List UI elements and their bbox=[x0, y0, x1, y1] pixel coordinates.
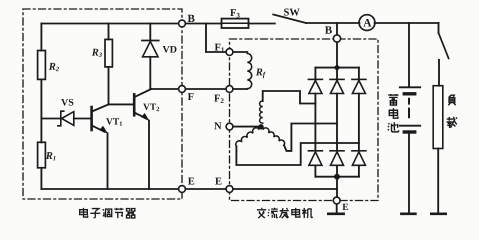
diode D4 bottom-left bbox=[308, 151, 322, 166]
label B (regulator B terminal) bbox=[188, 15, 195, 22]
wire: B drop to F1 bbox=[206, 24, 230, 53]
diode D3 top-right bbox=[352, 79, 366, 93]
wire: regulator top rail B bbox=[41, 23, 182, 25]
label VT2 (transistor designator) bbox=[143, 104, 150, 110]
label B (generator B terminal) bbox=[325, 26, 332, 33]
diode D1 top-left bbox=[308, 79, 322, 93]
star junction dot bbox=[258, 124, 263, 129]
generator dashed box bbox=[230, 39, 379, 201]
stator phase A coil (vertical) bbox=[260, 101, 263, 123]
label A (ammeter letter) bbox=[363, 19, 371, 27]
resistor R3 bbox=[105, 39, 112, 67]
wire: N lead bbox=[230, 126, 259, 128]
switch SW blade bbox=[273, 15, 306, 24]
node E generator left bbox=[226, 186, 233, 193]
label R2 (resistor designator) bbox=[49, 63, 56, 70]
label R1 (resistor designator) bbox=[46, 152, 53, 159]
node circles bbox=[179, 20, 341, 204]
wire: left column bottom bbox=[40, 168, 42, 189]
battery short plate 2 bbox=[404, 130, 414, 133]
wire: phase C to middle diode column bbox=[284, 124, 337, 151]
transistor VT2 bbox=[134, 89, 151, 189]
label N (neutral terminal) bbox=[214, 122, 221, 129]
label E (generator earth terminal) bbox=[215, 178, 221, 185]
label E (generator bottom earth) bbox=[342, 204, 348, 210]
label E (regulator earth terminal) bbox=[188, 178, 194, 185]
node N bbox=[226, 123, 233, 130]
battery BAT plates (long positive) bbox=[400, 86, 420, 88]
field winding Rf coil bbox=[247, 54, 251, 89]
diode VD bbox=[142, 40, 159, 42]
rectifier bottom bar bbox=[315, 176, 359, 178]
battery lead bbox=[408, 23, 410, 86]
fuse F3 bbox=[222, 19, 249, 28]
label Rf (field winding designator) bbox=[256, 69, 263, 76]
stator phase C coil (to lower-right) bbox=[263, 128, 284, 145]
diode D2 top-mid bbox=[330, 79, 344, 93]
label F1 (field terminal 1) bbox=[215, 44, 221, 51]
ammeter A bbox=[359, 15, 375, 31]
label: 负载 (vertical) bbox=[446, 95, 457, 128]
label VS (zener designator) bbox=[61, 99, 68, 106]
wire: rectifier to E node bbox=[336, 177, 338, 198]
wire: VS branch bbox=[41, 118, 90, 120]
regulator dashed box (dash-dot border) bbox=[23, 9, 182, 199]
battery short plate bbox=[404, 92, 414, 95]
ground at generator E bbox=[336, 204, 338, 214]
label: 交流发电机 bbox=[257, 208, 312, 218]
node F regulator bbox=[179, 86, 186, 93]
stator phase B coil (to lower-left) bbox=[236, 128, 259, 147]
wire: switch to ammeter bbox=[306, 22, 359, 24]
wire: left column upper (to R2) bbox=[40, 24, 42, 51]
wire: fuse to switch bbox=[249, 23, 275, 25]
rectifier top bar bbox=[315, 67, 359, 69]
diode D6 bottom-right bbox=[352, 151, 366, 166]
label R3 (resistor designator) bbox=[92, 49, 99, 56]
load switch bbox=[438, 23, 440, 33]
node E regulator bbox=[179, 186, 186, 193]
wire: VD bottom leg bbox=[149, 57, 151, 89]
ground at load bbox=[431, 213, 445, 216]
node F1 bbox=[226, 49, 233, 56]
node B generator bbox=[333, 35, 340, 42]
resistor R2 bbox=[38, 51, 46, 80]
wire: VT2 base rail bbox=[109, 103, 134, 105]
label SW (switch designator) bbox=[284, 9, 289, 16]
diode D5 bottom-mid bbox=[330, 151, 344, 166]
resistor R1 bbox=[38, 142, 46, 168]
wire: bottom E rail bbox=[41, 188, 337, 190]
ground at battery bbox=[401, 213, 415, 216]
wire: ammeter to right bbox=[375, 22, 439, 24]
rectifier column legs bbox=[314, 68, 316, 177]
wire: load to ground bbox=[437, 149, 439, 214]
label F2 (field terminal 2) bbox=[214, 95, 220, 102]
wire: phase A to left diode column bbox=[263, 91, 316, 104]
label: 电子调节器 bbox=[80, 208, 135, 218]
wire: F rail regulator bbox=[150, 88, 247, 90]
wire: VD top leg bbox=[149, 24, 151, 40]
transistor VT1 bbox=[92, 104, 109, 189]
wire: left column mid bbox=[40, 79, 42, 142]
label: 蓄电池 (vertical) bbox=[388, 94, 399, 132]
zener diode VS bbox=[58, 111, 64, 126]
node E generator bottom bbox=[333, 197, 340, 204]
battery long plate 2 bbox=[400, 125, 420, 127]
wire: generator B lead bbox=[336, 23, 338, 68]
label F3 (fuse designator) bbox=[230, 9, 236, 16]
wire: battery to ground bbox=[408, 134, 410, 213]
node B regulator bbox=[179, 20, 186, 27]
wire: R3 top leg bbox=[108, 24, 110, 40]
node F2 bbox=[226, 86, 233, 93]
label VD (diode designator) bbox=[163, 46, 170, 53]
label F (regulator field terminal) bbox=[188, 93, 194, 100]
load resistor box bbox=[433, 86, 443, 149]
wire: R3 bottom leg to VT1 collector node bbox=[108, 67, 110, 105]
label VT1 (transistor designator) bbox=[106, 118, 113, 124]
wire: phase B to right diode column bbox=[236, 143, 359, 165]
wire: B to fuse bbox=[182, 23, 222, 25]
wire: F1 to field winding bbox=[230, 51, 248, 53]
battery cell-gap dashes bbox=[408, 99, 410, 117]
